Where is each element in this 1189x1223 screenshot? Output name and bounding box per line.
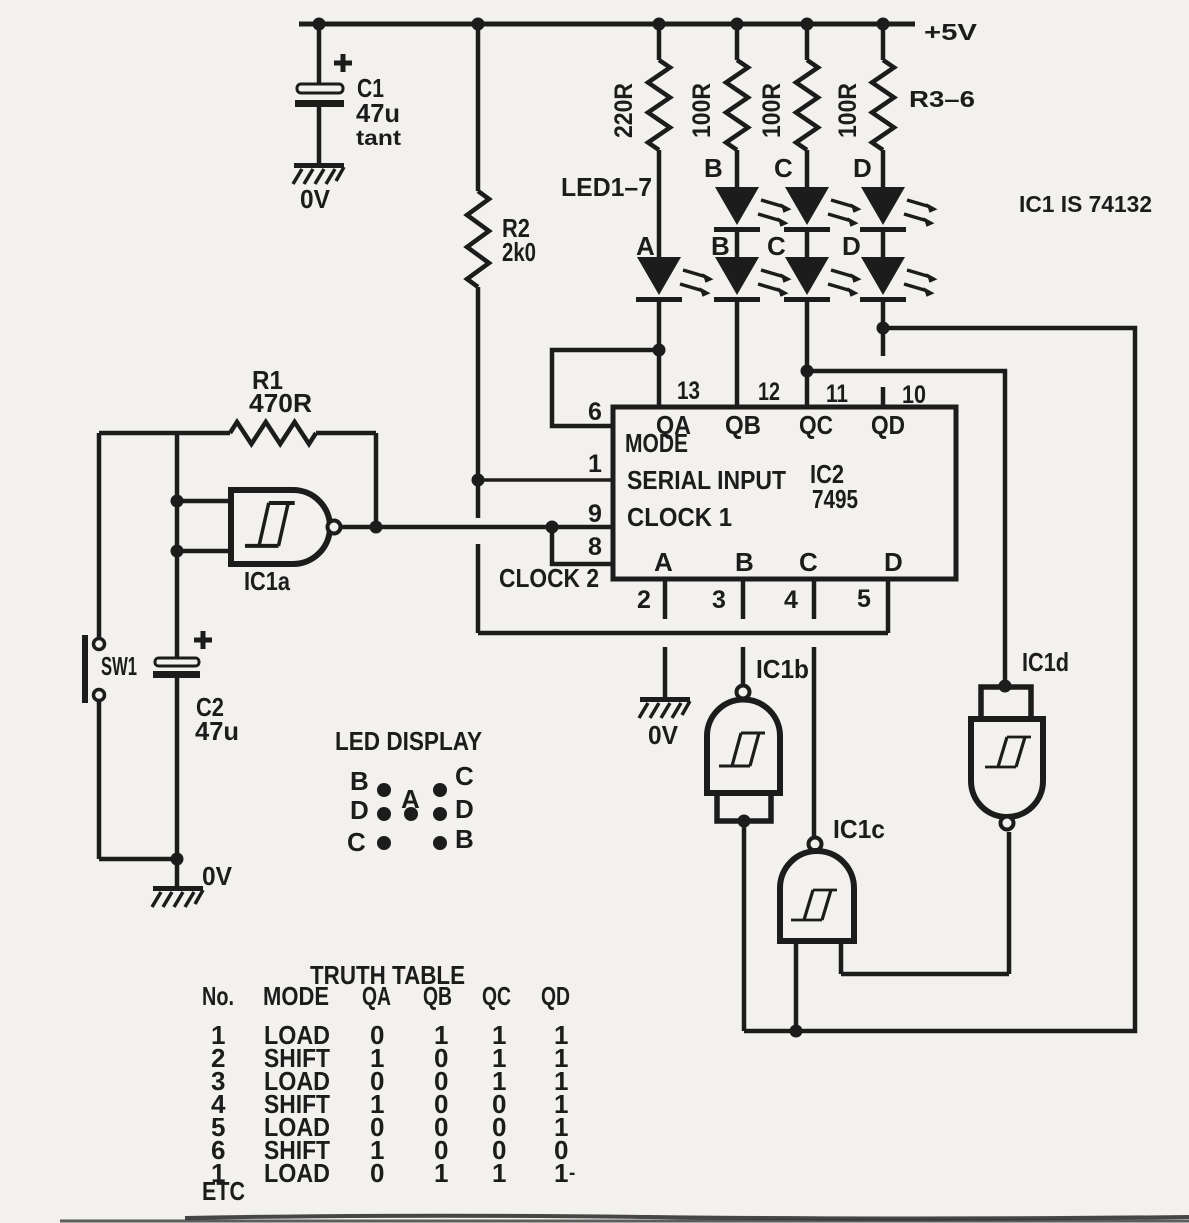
NAND gate IC1d (971, 647, 1069, 830)
junction QA node (653, 344, 666, 357)
junction on +5V rail (313, 18, 326, 31)
resistor R1 470R (99, 365, 376, 527)
wire column D (881, 150, 886, 187)
scan artifact bottom edge (decorative) (185, 1216, 1189, 1219)
resistor 100R (R3-6 group, column B) (688, 24, 748, 150)
junction on +5V rail (653, 18, 666, 31)
svg-text:MODE: MODE (625, 428, 688, 458)
truth table (202, 960, 575, 1206)
svg-text:100R: 100R (758, 83, 786, 138)
svg-text:3: 3 (712, 586, 726, 614)
svg-text:1: 1 (434, 1158, 448, 1188)
svg-text:CLOCK 1: CLOCK 1 (627, 502, 732, 532)
wire between LEDs col C (805, 232, 810, 257)
svg-text:-: - (569, 1163, 575, 1184)
svg-text:47u: 47u (356, 98, 400, 128)
svg-text:IC1b: IC1b (756, 654, 809, 684)
svg-text:C: C (799, 547, 818, 577)
wire QD node (881, 302, 886, 356)
capacitor C2 (153, 433, 239, 886)
ground under C2 (152, 886, 203, 907)
resistor 220R (R3-6 group, column A) (610, 24, 670, 150)
wire SW1 column (97, 433, 102, 638)
svg-text:A: A (636, 231, 655, 261)
svg-text:D: D (853, 153, 872, 183)
wire between LEDs col B (735, 232, 740, 257)
svg-text:220R: 220R (610, 83, 638, 138)
LED display legend (335, 726, 482, 857)
junction on +5V rail (472, 18, 485, 31)
LED A (LED row 2, col A) (636, 231, 714, 302)
svg-text:A: A (401, 784, 420, 814)
svg-text:D: D (350, 795, 369, 825)
op-amp U1 / IC2 7495 body (613, 407, 956, 579)
svg-text:13: 13 (677, 377, 700, 405)
wire column C (805, 150, 810, 187)
svg-text:0V: 0V (300, 184, 331, 214)
svg-text:B: B (350, 766, 369, 796)
junction on +5V rail (801, 18, 814, 31)
svg-text:IC1 IS 74132: IC1 IS 74132 (1019, 191, 1152, 217)
svg-text:6: 6 (588, 398, 602, 426)
svg-text:100R: 100R (688, 83, 716, 138)
wire QC to pin 11 (805, 302, 810, 407)
wires IC1a inputs (177, 499, 231, 504)
junction on +5V rail (731, 18, 744, 31)
svg-text:QC: QC (482, 981, 511, 1011)
svg-text:2k0: 2k0 (502, 237, 536, 267)
svg-text:B: B (735, 547, 754, 577)
svg-text:LED DISPLAY: LED DISPLAY (335, 726, 482, 756)
svg-text:CLOCK 2: CLOCK 2 (499, 563, 599, 593)
wire LED A to pin 13 (657, 302, 662, 407)
wires IC1c inputs (794, 941, 799, 1031)
svg-text:C: C (455, 761, 474, 791)
svg-text:B: B (455, 824, 474, 854)
svg-text:IC1a: IC1a (244, 566, 290, 596)
wire pin2 to ground (663, 647, 668, 697)
LED B (LED row 1) (704, 153, 792, 232)
wire column B (735, 150, 740, 187)
svg-text:8: 8 (588, 533, 602, 561)
wire QA to MODE pin 6 (552, 350, 659, 426)
NAND gate IC1b (707, 647, 809, 828)
wire +5V rail (299, 22, 915, 27)
svg-text:0V: 0V (648, 720, 679, 750)
svg-text:A: A (654, 547, 673, 577)
wire QB to pin 12 (735, 302, 740, 407)
resistor 100R (R3-6 group, column D) (834, 24, 894, 150)
wire SW1 to 0V (97, 700, 102, 859)
svg-text:QD: QD (541, 981, 570, 1011)
svg-text:D: D (884, 547, 903, 577)
LED D (LED row 2) (842, 231, 938, 302)
ground under C1 (293, 163, 344, 184)
svg-text:No.: No. (202, 981, 234, 1011)
wire column A (657, 150, 662, 257)
LED C (LED row 1) (774, 153, 862, 232)
wire QD to IC1b/IC1c inputs (right side + bottom rail) (744, 328, 1135, 1031)
svg-text:C: C (774, 153, 793, 183)
svg-text:D: D (842, 231, 861, 261)
wire R2 column to D input (with crossover break) (476, 480, 481, 518)
wire IC1b inputs to bottom rail (742, 821, 747, 1031)
pin stubs bottom with crossover breaks (663, 579, 668, 619)
svg-text:47u: 47u (195, 716, 239, 746)
switch SW1 (82, 635, 137, 703)
svg-text:0: 0 (370, 1158, 384, 1188)
svg-text:LOAD: LOAD (264, 1158, 330, 1188)
svg-text:1: 1 (554, 1158, 568, 1188)
svg-text:470R: 470R (249, 388, 312, 418)
NAND gate IC1c (780, 647, 885, 941)
svg-text:QD: QD (871, 410, 905, 440)
svg-text:tant: tant (356, 127, 401, 150)
svg-text:10: 10 (902, 381, 926, 409)
svg-text:1: 1 (588, 450, 602, 478)
NAND gate IC1a (schmitt) (231, 490, 341, 596)
svg-text:IC1c: IC1c (833, 814, 885, 844)
svg-text:11: 11 (826, 380, 848, 408)
svg-text:SW1: SW1 (101, 651, 137, 681)
svg-text:QB: QB (725, 410, 761, 440)
junction on +5V rail (877, 18, 890, 31)
svg-text:9: 9 (588, 500, 602, 528)
svg-text:B: B (711, 231, 730, 261)
svg-text:5: 5 (857, 585, 871, 613)
svg-text:QC: QC (799, 410, 833, 440)
svg-text:12: 12 (758, 378, 780, 406)
svg-text:QA: QA (362, 981, 391, 1011)
svg-text:+5V: +5V (924, 19, 978, 45)
svg-text:D: D (455, 794, 474, 824)
svg-text:SERIAL INPUT: SERIAL INPUT (627, 465, 786, 495)
resistor R2 2k0 (467, 24, 536, 480)
resistor 100R (R3-6 group, column C) (758, 24, 818, 150)
svg-text:IC1d: IC1d (1022, 647, 1069, 677)
capacitor C1 (295, 24, 401, 164)
svg-text:R3–6: R3–6 (909, 86, 975, 112)
svg-text:2: 2 (637, 586, 651, 614)
svg-text:7495: 7495 (812, 484, 858, 514)
svg-text:1: 1 (492, 1158, 506, 1188)
LED D (LED row 1) (853, 153, 938, 232)
svg-text:LED1–7: LED1–7 (561, 172, 652, 202)
wire between LEDs col D (881, 232, 886, 257)
wire QC to IC1d (807, 371, 1005, 687)
svg-text:B: B (704, 153, 723, 183)
LED B (LED row 2) (711, 231, 792, 302)
wire R2 to SERIAL INPUT pin 1 (478, 478, 613, 482)
svg-text:C: C (347, 827, 366, 857)
svg-text:MODE: MODE (263, 981, 329, 1011)
svg-text:QB: QB (423, 981, 452, 1011)
wire to CLOCK2 pin 8 (552, 527, 613, 564)
LED C (LED row 2) (767, 231, 862, 302)
svg-text:ETC: ETC (202, 1176, 245, 1206)
wire IC1a output to CLOCK1 pin 9 (341, 525, 613, 530)
svg-text:0V: 0V (202, 861, 233, 891)
ground under pin 2 (639, 697, 690, 718)
svg-text:C: C (767, 231, 786, 261)
svg-text:100R: 100R (834, 83, 862, 138)
svg-text:4: 4 (784, 586, 798, 614)
